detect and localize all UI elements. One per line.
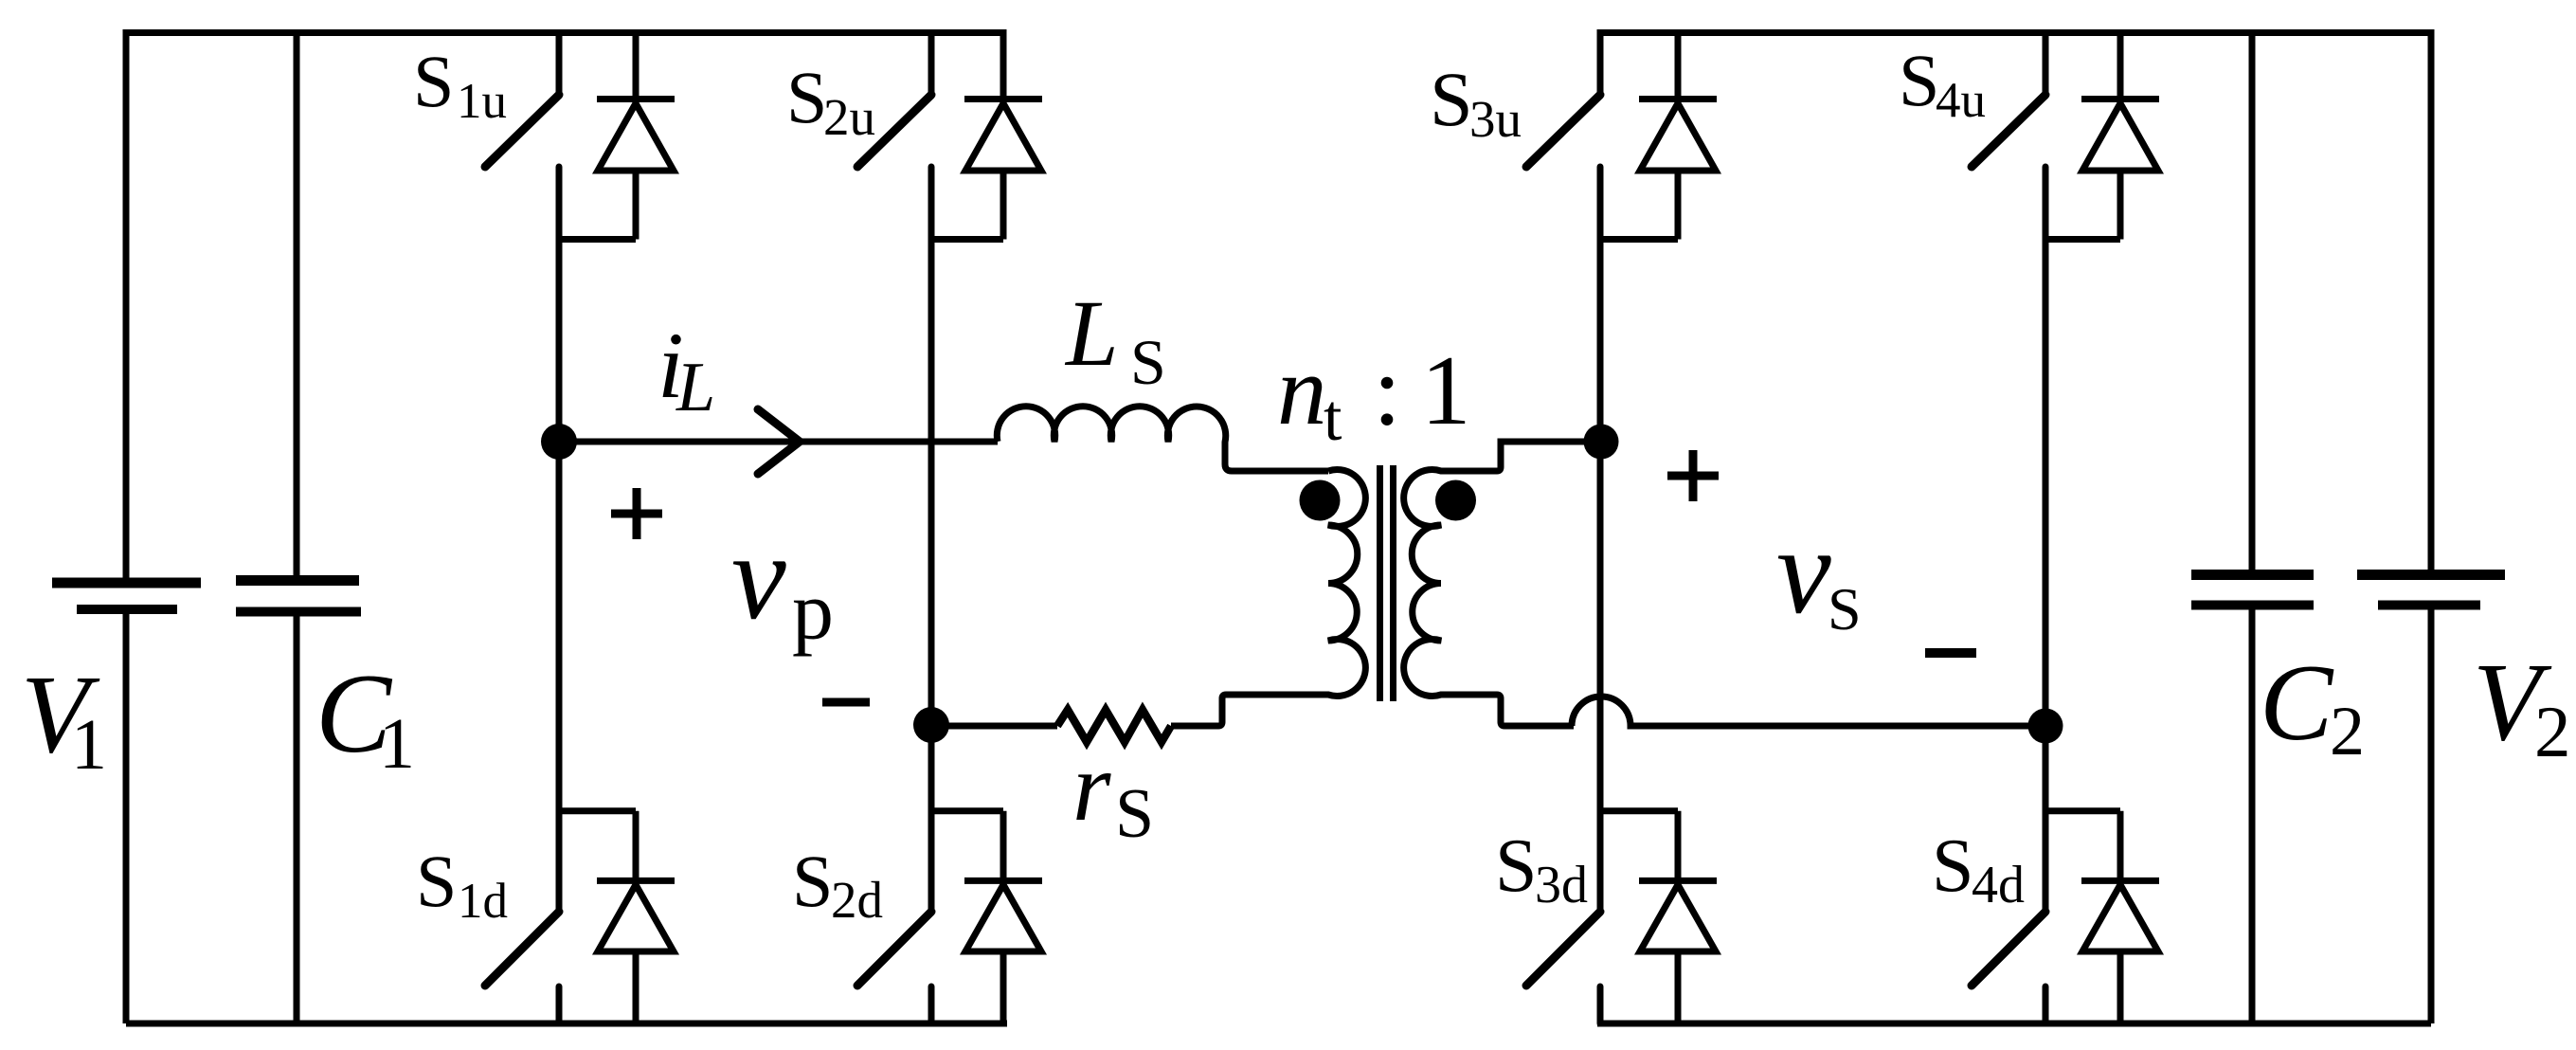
label colon of nt:1 [1381, 377, 1394, 389]
diode D2d [964, 811, 1042, 1023]
wire bottom rail right bridge [1597, 1021, 2431, 1027]
diode D1d [597, 811, 675, 1023]
switch S2u [857, 29, 931, 442]
wire S1d collector connector [559, 807, 636, 814]
transformer T secondary winding [1404, 442, 1574, 726]
diode D3u [1639, 29, 1717, 240]
capacitor C1 [236, 29, 361, 1023]
label vp minus [822, 698, 870, 707]
switch S2d [857, 442, 931, 1023]
transformer core [1380, 465, 1394, 701]
resistor rS [1057, 710, 1171, 742]
wire secondary top to node [1504, 439, 1601, 445]
wire S2u emitter connector [931, 236, 1003, 243]
switch S4d [1972, 442, 2045, 1023]
inductor LS [997, 407, 1328, 471]
label vs minus [1925, 648, 1976, 658]
wire S3u emitter connector [1600, 236, 1678, 243]
dot secondary polarity [1435, 480, 1476, 521]
dot primary polarity [1300, 480, 1341, 521]
node vs+ [1584, 425, 1619, 460]
switch S3u [1526, 29, 1600, 442]
label vp plus [611, 488, 662, 539]
switch S1u [485, 29, 559, 442]
node vp- [913, 707, 949, 743]
wire top rail right bridge [1598, 29, 2431, 36]
wire iL horizontal [559, 439, 998, 445]
battery V2 [2357, 29, 2505, 1023]
wire S1u emitter connector [559, 236, 636, 243]
diode D4u [2081, 29, 2159, 240]
arrow iL direction [758, 409, 800, 474]
switch S4u [1972, 29, 2045, 442]
wire vs- with hop over S3 leg [1572, 697, 2045, 726]
battery V1 [52, 29, 201, 1023]
wire vp- to resistor [931, 723, 1057, 730]
wire top rail left bridge [126, 29, 1003, 36]
switch S3d [1526, 442, 1600, 1023]
node vs- [2028, 709, 2063, 744]
diode D3d [1639, 811, 1717, 1023]
diode D2u [964, 29, 1042, 240]
diode D1u [597, 29, 675, 240]
wire S4d collector connector [2045, 807, 2120, 814]
capacitor C2 [2191, 29, 2314, 1023]
wire S2d collector connector [931, 807, 1003, 814]
switch S1d [485, 442, 559, 1023]
wire S4u emitter connector [2045, 236, 2120, 243]
label vs plus [1667, 450, 1719, 501]
node A (S1 midpoint) [541, 424, 577, 460]
diode D4d [2081, 811, 2159, 1023]
wire S3d collector connector [1600, 807, 1678, 814]
wire bottom rail left bridge [126, 1021, 1007, 1027]
transformer T primary winding [1171, 470, 1365, 727]
